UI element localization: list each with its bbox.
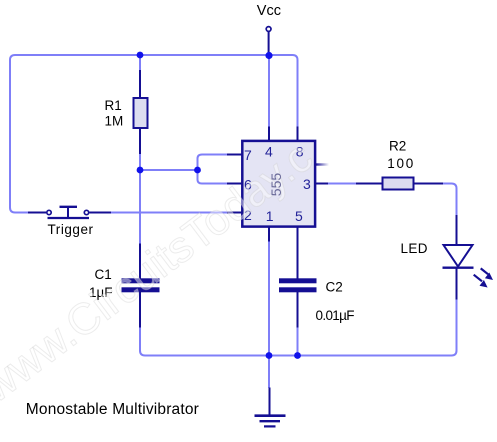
svg-text:Vcc: Vcc bbox=[257, 3, 281, 19]
svg-text:7: 7 bbox=[244, 147, 252, 163]
svg-text:R1: R1 bbox=[105, 98, 122, 113]
svg-text:Trigger: Trigger bbox=[48, 222, 94, 237]
svg-text:Monostable Multivibrator: Monostable Multivibrator bbox=[26, 401, 199, 418]
svg-text:R2: R2 bbox=[389, 139, 406, 154]
svg-text:1M: 1M bbox=[105, 113, 124, 128]
svg-text:0.01µF: 0.01µF bbox=[316, 308, 355, 323]
svg-text:100: 100 bbox=[387, 156, 413, 171]
svg-text:5: 5 bbox=[295, 208, 303, 224]
svg-text:LED: LED bbox=[401, 241, 428, 256]
svg-text:C2: C2 bbox=[326, 280, 343, 295]
svg-text:555: 555 bbox=[268, 173, 284, 197]
